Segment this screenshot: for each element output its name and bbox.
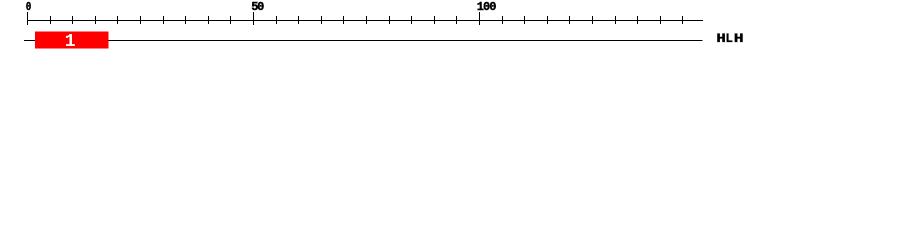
svg-text:H: H <box>716 32 725 46</box>
svg-text:1: 1 <box>65 32 76 52</box>
ruler major tick 50 <box>253 12 254 25</box>
svg-text:L: L <box>725 32 733 46</box>
svg-text:H: H <box>734 32 744 46</box>
domain box 1 (red) <box>35 32 109 49</box>
ruler major tick 100 <box>479 12 480 25</box>
svg-text:0: 0 <box>26 0 32 14</box>
svg-text:50: 50 <box>251 0 264 14</box>
svg-text:100: 100 <box>477 0 497 14</box>
ruler major tick 0 <box>27 12 28 25</box>
ruler baseline <box>27 20 703 21</box>
ruler minor ticks <box>50 16 683 24</box>
sequence line <box>24 40 703 41</box>
